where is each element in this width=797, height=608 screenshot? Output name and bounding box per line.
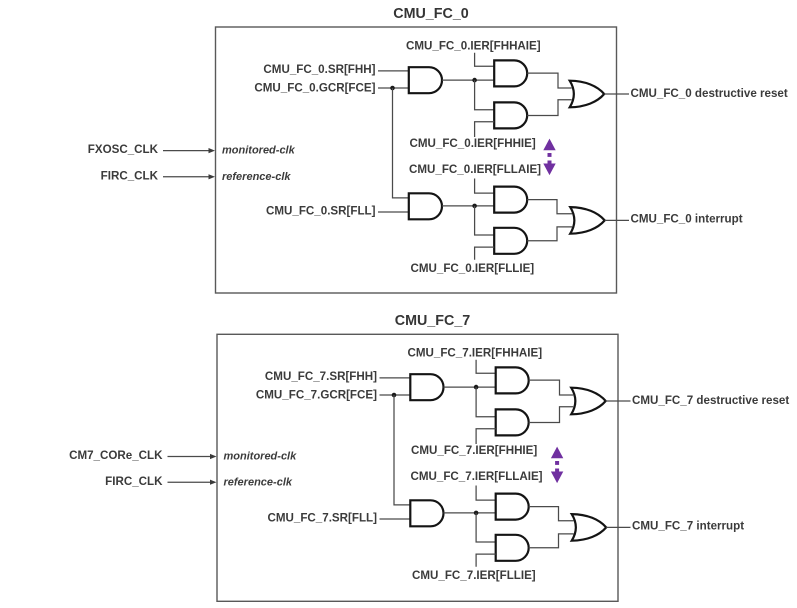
AND gate A3 (CMU_FC_0 FHHIE) <box>494 102 527 128</box>
wire AND A6 output to OR O2 <box>527 227 572 241</box>
svg-text:CMU_FC_7 interrupt: CMU_FC_7 interrupt <box>632 520 744 533</box>
wire CMU_FC_0.GCR[FCE] to AND gate A1 <box>378 87 409 89</box>
wire CMU_FC_7.SR[FHH] to AND gate A1 <box>380 377 411 379</box>
wire IER[FLLAIE] to AND A5 <box>476 486 496 501</box>
wire CMU_FC_7.SR[FLL] to AND gate A4 <box>380 518 411 520</box>
svg-text:CMU_FC_0.IER[FLLAIE]: CMU_FC_0.IER[FLLAIE] <box>409 163 541 176</box>
svg-text:CMU_FC_7.IER[FHHIE]: CMU_FC_7.IER[FHHIE] <box>411 444 537 457</box>
svg-text:CMU_FC_0 interrupt: CMU_FC_0 interrupt <box>631 213 743 226</box>
svg-text:monitored-clk: monitored-clk <box>224 451 298 463</box>
wire A4 output branch down to AND A6 <box>476 513 496 542</box>
svg-text:CMU_FC_7.IER[FHHAIE]: CMU_FC_7.IER[FHHAIE] <box>408 346 543 359</box>
wire AND A2 output to OR O1 <box>529 380 574 395</box>
svg-text:CMU_FC_7.IER[FLLIE]: CMU_FC_7.IER[FLLIE] <box>412 569 536 582</box>
wire AND A1 output to AND A2 <box>442 79 494 81</box>
svg-text:monitored-clk: monitored-clk <box>222 145 296 157</box>
dashed purple double-arrow separator <box>543 139 555 151</box>
wire OR O2 output (CMU_FC_0 interrupt) <box>605 219 629 221</box>
OR gate O2 (CMU_FC_7 interrupt) <box>572 514 607 541</box>
wire AND A5 output to OR O2 <box>527 200 572 214</box>
svg-text:CMU_FC_7.GCR[FCE]: CMU_FC_7.GCR[FCE] <box>256 388 377 401</box>
wire AND A2 output to OR O1 <box>527 73 572 88</box>
wire CMU_FC_7.GCR[FCE] to AND gate A1 <box>380 394 411 396</box>
wire OR O2 output (CMU_FC_7 interrupt) <box>606 526 630 528</box>
svg-text:CMU_FC_0.SR[FLL]: CMU_FC_0.SR[FLL] <box>266 205 376 218</box>
block CMU_FC_7 boundary box <box>217 334 618 601</box>
node junction on GCR[FCE] wire <box>390 86 395 91</box>
svg-text:FXOSC_CLK: FXOSC_CLK <box>88 143 159 156</box>
node junction on A4 output <box>472 204 477 209</box>
wire FXOSC_CLK input arrow <box>163 150 210 152</box>
svg-text:FIRC_CLK: FIRC_CLK <box>105 475 163 488</box>
dashed purple double-arrow separator <box>551 447 563 459</box>
AND gate A6 (CMU_FC_0 FLLIE) <box>494 228 527 254</box>
wire CMU_FC_0.SR[FLL] to AND gate A4 <box>378 211 409 213</box>
OR gate O1 (CMU_FC_7 destructive reset) <box>571 388 606 415</box>
block CMU_FC_0 boundary box <box>216 27 617 293</box>
svg-text:CMU_FC_0 destructive reset: CMU_FC_0 destructive reset <box>631 87 788 100</box>
wire AND A1 output to AND A2 <box>444 386 496 388</box>
svg-text:CMU_FC_0.IER[FHHIE]: CMU_FC_0.IER[FHHIE] <box>410 137 536 150</box>
wire FIRC_CLK input arrow <box>163 176 210 178</box>
AND gate A1 (CMU_FC_0 FHH enable) <box>409 67 442 93</box>
wire FIRC_CLK input arrow <box>168 481 212 483</box>
wire AND A3 output to OR O1 <box>527 100 572 116</box>
wire A4 output branch down to AND A6 <box>475 206 495 235</box>
wire GCR[FCE] branch down to AND gate A4 <box>394 395 410 505</box>
wire AND A4 output to AND A5 <box>444 512 496 514</box>
OR gate O2 (CMU_FC_0 interrupt) <box>570 207 605 234</box>
wire GCR[FCE] branch down to AND gate A4 <box>393 88 409 198</box>
wire IER[FLLAIE] to AND A5 <box>475 179 495 194</box>
svg-text:CMU_FC_0.IER[FHHAIE]: CMU_FC_0.IER[FHHAIE] <box>406 39 541 52</box>
wire AND A6 output to OR O2 <box>529 534 574 548</box>
AND gate A5 (CMU_FC_0 FLLAIE) <box>494 187 527 213</box>
svg-text:CMU_FC_7.IER[FLLAIE]: CMU_FC_7.IER[FLLAIE] <box>411 470 543 483</box>
svg-text:CMU_FC_0.IER[FLLIE]: CMU_FC_0.IER[FLLIE] <box>411 262 535 275</box>
AND gate A2 (CMU_FC_7 FHHAIE) <box>496 367 529 393</box>
wire OR O1 output (CMU_FC_0 destructive reset) <box>604 93 629 95</box>
node junction on GCR[FCE] wire <box>392 393 397 398</box>
wire IER[FLLIE] to AND A6 <box>476 554 496 567</box>
wire A1 output branch down to AND A3 <box>475 80 495 110</box>
AND gate A5 (CMU_FC_7 FLLAIE) <box>496 494 529 520</box>
wire IER[FHHIE] to AND A3 <box>476 429 496 444</box>
node junction on A4 output <box>474 511 479 516</box>
svg-text:CMU_FC_7.SR[FHH]: CMU_FC_7.SR[FHH] <box>265 370 377 383</box>
wire CMU_FC_0.SR[FHH] to AND gate A1 <box>378 70 409 72</box>
svg-text:CMU_FC_0: CMU_FC_0 <box>393 6 469 22</box>
svg-text:CMU_FC_0.SR[FHH]: CMU_FC_0.SR[FHH] <box>263 63 375 76</box>
AND gate A3 (CMU_FC_7 FHHIE) <box>496 409 529 435</box>
svg-text:CM7_CORe_CLK: CM7_CORe_CLK <box>69 449 163 462</box>
svg-text:reference-clk: reference-clk <box>224 476 293 488</box>
AND gate A2 (CMU_FC_0 FHHAIE) <box>494 60 527 86</box>
AND gate A6 (CMU_FC_7 FLLIE) <box>496 535 529 561</box>
wire IER[FHHIE] to AND A3 <box>475 122 495 137</box>
wire AND A3 output to OR O1 <box>529 407 574 423</box>
svg-text:CMU_FC_7.SR[FLL]: CMU_FC_7.SR[FLL] <box>268 512 378 525</box>
AND gate A1 (CMU_FC_7 FHH enable) <box>410 374 443 400</box>
node junction on A1 output <box>472 78 477 83</box>
wire AND A4 output to AND A5 <box>442 205 494 207</box>
wire IER[FHHAIE] to AND A2 <box>475 53 495 66</box>
svg-text:CMU_FC_7: CMU_FC_7 <box>395 313 471 329</box>
wire IER[FHHAIE] to AND A2 <box>476 360 496 374</box>
svg-text:CMU_FC_7 destructive reset: CMU_FC_7 destructive reset <box>632 394 789 407</box>
AND gate A4 (CMU_FC_0 FLL enable) <box>409 193 442 219</box>
wire A1 output branch down to AND A3 <box>476 387 496 417</box>
wire IER[FLLIE] to AND A6 <box>475 247 495 260</box>
OR gate O1 (CMU_FC_0 destructive reset) <box>570 81 605 108</box>
wire AND A5 output to OR O2 <box>529 507 574 521</box>
svg-text:reference-clk: reference-clk <box>222 171 291 183</box>
wire OR O1 output (CMU_FC_7 destructive reset) <box>606 400 631 402</box>
svg-text:CMU_FC_0.GCR[FCE]: CMU_FC_0.GCR[FCE] <box>254 81 375 94</box>
svg-text:FIRC_CLK: FIRC_CLK <box>101 169 159 182</box>
AND gate A4 (CMU_FC_7 FLL enable) <box>410 500 443 526</box>
wire CM7_CORe_CLK input arrow <box>168 456 212 458</box>
node junction on A1 output <box>474 385 479 390</box>
